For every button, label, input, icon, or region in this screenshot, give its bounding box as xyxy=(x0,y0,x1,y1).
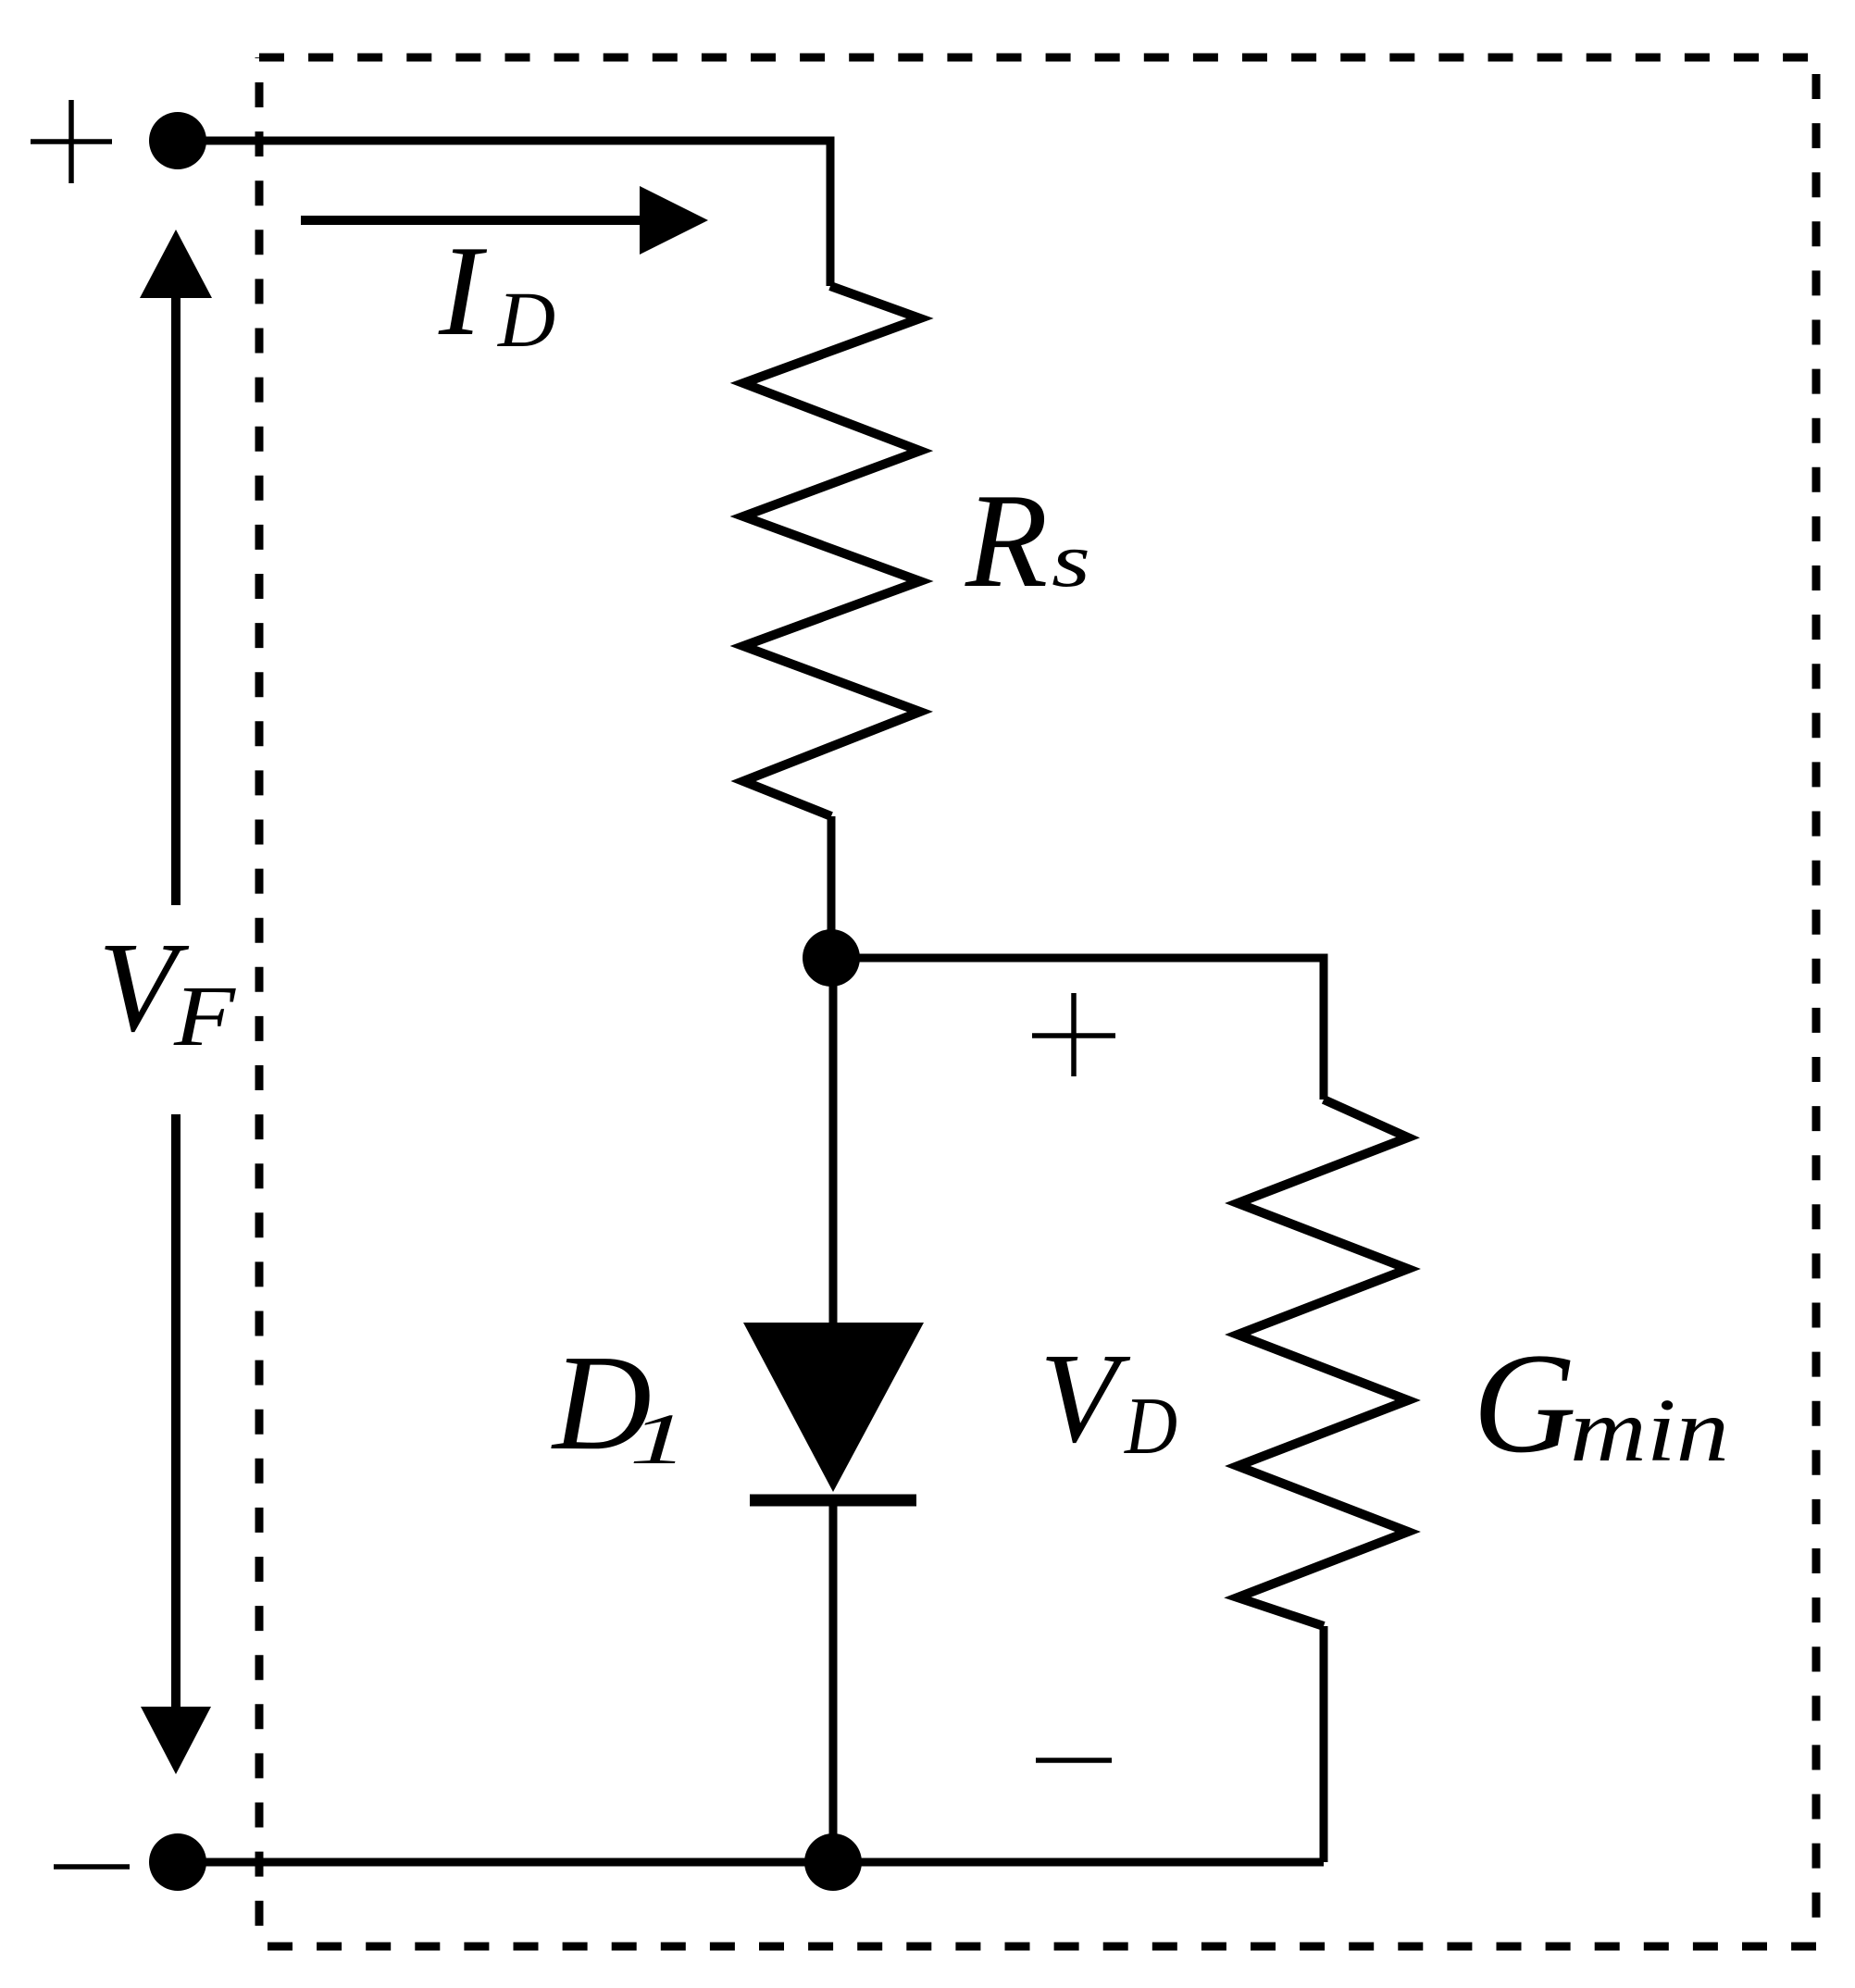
svg-text:I: I xyxy=(438,219,488,363)
svg-text:R: R xyxy=(965,466,1048,615)
svg-text:D: D xyxy=(1124,1382,1177,1472)
svg-text:D: D xyxy=(497,275,555,364)
svg-text:s: s xyxy=(1052,517,1090,603)
svg-text:V: V xyxy=(1040,1327,1131,1470)
svg-text:G: G xyxy=(1473,1323,1576,1483)
svg-text:min: min xyxy=(1570,1381,1729,1480)
svg-text:F: F xyxy=(173,969,237,1064)
svg-text:1: 1 xyxy=(629,1398,688,1479)
